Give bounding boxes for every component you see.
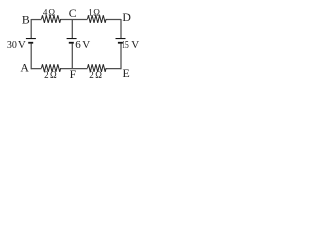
- svg-text:E: E: [123, 66, 130, 80]
- resistor R4 2ohm F-E: [88, 64, 107, 72]
- wire left branch B-A: [30, 19, 32, 69]
- svg-text:F: F: [70, 67, 77, 81]
- svg-text:30V: 30V: [7, 39, 26, 51]
- wire bottom F-E: [61, 68, 121, 70]
- wire bottom A-F: [31, 68, 41, 70]
- svg-text:6V: 6V: [75, 39, 90, 51]
- svg-text:B: B: [22, 12, 30, 26]
- wire middle branch C-F: [71, 20, 73, 69]
- svg-text:2Ω: 2Ω: [89, 70, 102, 80]
- wire top C-D: [61, 19, 121, 21]
- svg-text:4Ω: 4Ω: [43, 8, 56, 18]
- wire right branch D-E: [120, 19, 122, 69]
- wire top B-C: [31, 19, 41, 21]
- svg-text:15V: 15V: [122, 39, 139, 51]
- svg-text:C: C: [69, 6, 77, 20]
- battery V1 30V plates: [26, 39, 36, 43]
- svg-text:1Ω: 1Ω: [88, 7, 100, 17]
- battery V2 6V plates: [67, 39, 77, 43]
- svg-text:D: D: [122, 10, 131, 24]
- resistor R2 1ohm: [88, 15, 107, 23]
- resistor R1 4ohm: [42, 15, 61, 23]
- battery V3 15V plates: [116, 39, 126, 43]
- svg-text:A: A: [20, 61, 29, 75]
- svg-text:2Ω: 2Ω: [44, 70, 57, 80]
- resistor R3 2ohm A-F: [42, 64, 61, 72]
